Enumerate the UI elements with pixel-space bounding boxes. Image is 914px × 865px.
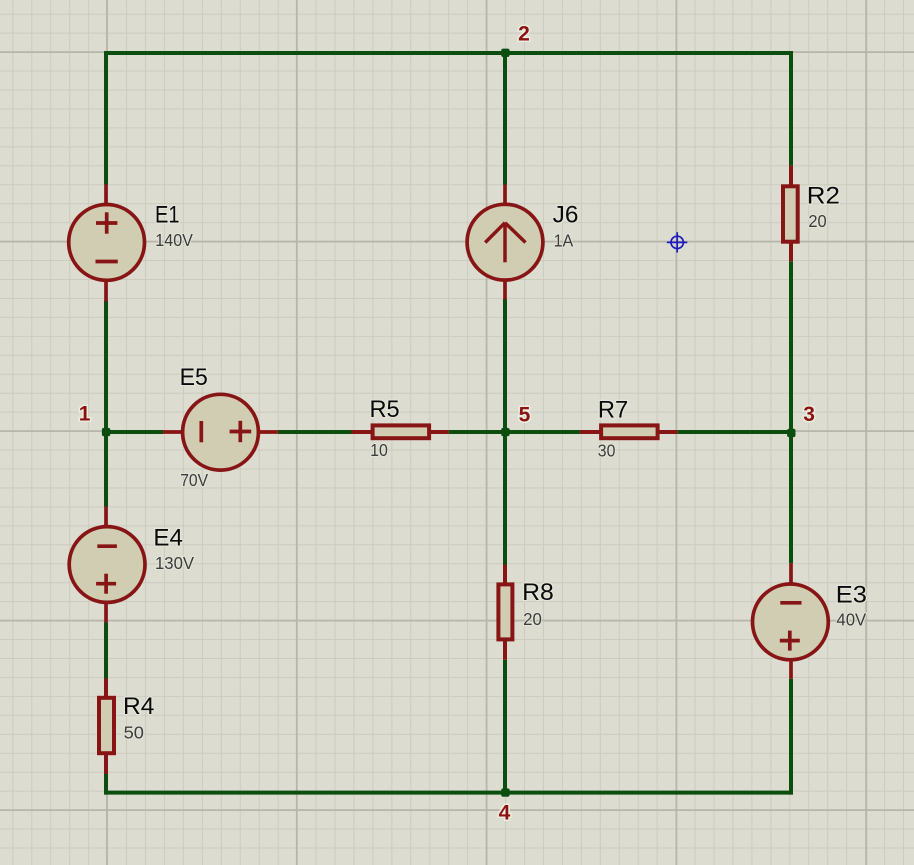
- wire middle row: R7 right pin to node 3: [677, 430, 791, 434]
- svg-text:20: 20: [808, 211, 827, 231]
- junction dot node 1: [102, 428, 110, 436]
- voltage source E5: [163, 394, 278, 470]
- wire bottom horizontal node4 rail: [104, 791, 793, 795]
- svg-text:J6: J6: [553, 201, 579, 228]
- svg-text:R2: R2: [807, 183, 840, 210]
- svg-text:4: 4: [499, 801, 511, 824]
- origin marker (blue crosshair): [667, 232, 687, 252]
- voltage source E4: [69, 507, 145, 623]
- junction dot node 2: [501, 49, 509, 57]
- resistor R4: [99, 679, 114, 775]
- svg-text:5: 5: [519, 403, 531, 426]
- voltage source E1: [69, 185, 145, 302]
- wire middle row: E5 right pin to R5 left pin: [278, 430, 352, 434]
- resistor R7: [580, 425, 677, 438]
- voltage source E3: [753, 563, 829, 679]
- wire top horizontal node2 rail: [104, 51, 793, 55]
- wire left rail: R4 bottom to bottom-left corner: [104, 774, 108, 795]
- wire left rail: E4 bottom to R4 top pin: [104, 623, 108, 679]
- svg-text:R7: R7: [598, 396, 628, 423]
- wire right rail: top-right corner to R2 top pin: [789, 51, 793, 166]
- wire right rail: E3 bottom to bottom-right corner: [789, 679, 793, 795]
- resistor R5: [352, 425, 449, 438]
- wire middle row: R5 right pin to node 5: [449, 430, 505, 434]
- svg-text:R5: R5: [370, 396, 400, 423]
- wire middle rail: node 2 to J6 top pin: [503, 51, 507, 185]
- svg-text:50: 50: [124, 723, 145, 743]
- svg-text:E3: E3: [836, 581, 867, 608]
- wire middle row: node 1 to E5 left pin: [106, 430, 163, 434]
- wire left rail: node 1 to E4 top pin: [104, 432, 108, 507]
- svg-text:3: 3: [803, 403, 815, 426]
- wire middle rail: node 5 to R8 top pin: [503, 432, 507, 565]
- svg-text:2: 2: [518, 22, 530, 45]
- svg-text:1A: 1A: [554, 230, 574, 250]
- junction dot node 3: [787, 429, 795, 437]
- svg-text:1: 1: [79, 403, 91, 426]
- svg-text:130V: 130V: [155, 553, 194, 573]
- wire middle rail: R8 bottom to node 4: [503, 660, 507, 795]
- svg-text:40V: 40V: [836, 610, 866, 630]
- wire middle row: node 5 to R7 left pin: [505, 430, 580, 434]
- svg-text:E1: E1: [155, 202, 180, 229]
- wire middle rail: J6 bottom to node 5: [503, 299, 507, 432]
- junction dot node 4: [501, 788, 509, 796]
- wire left rail: E1 bottom to node 1: [104, 301, 108, 433]
- svg-text:R4: R4: [123, 693, 154, 720]
- J6 arrow: [485, 223, 525, 263]
- svg-text:E5: E5: [180, 364, 208, 391]
- wire right rail: R2 bottom to node 3: [789, 261, 793, 432]
- svg-text:30: 30: [598, 441, 616, 461]
- current source J6: [467, 184, 543, 299]
- resistor R8: [498, 564, 512, 659]
- svg-text:E4: E4: [153, 524, 183, 551]
- svg-text:70V: 70V: [180, 470, 208, 490]
- wire left rail top: corner to E1 top pin: [104, 51, 108, 185]
- svg-text:10: 10: [370, 440, 388, 460]
- svg-text:20: 20: [523, 609, 542, 629]
- junction dot node 5: [501, 428, 509, 436]
- svg-text:140V: 140V: [155, 230, 193, 250]
- resistor R2: [783, 166, 798, 262]
- wire right rail: node 3 to E3 top pin: [789, 432, 793, 563]
- svg-text:R8: R8: [522, 579, 554, 606]
